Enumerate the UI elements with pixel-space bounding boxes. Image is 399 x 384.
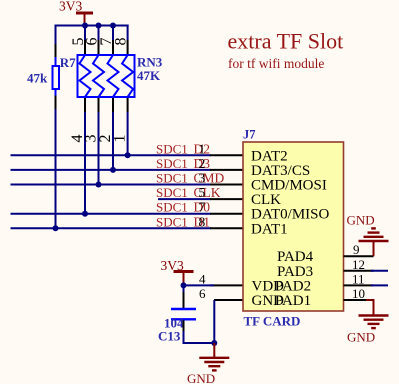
svg-text:extra TF Slot: extra TF Slot (228, 29, 344, 54)
svg-text:11: 11 (352, 271, 365, 286)
wire RN3 column pins 5-4 (84, 26, 86, 214)
ground GND (bottom middle) (187, 343, 229, 384)
resistor network RN3 (78, 55, 163, 98)
svg-text:12: 12 (352, 257, 365, 272)
svg-text:DAT1: DAT1 (251, 221, 288, 237)
junction 3V3/C13/pin4 (181, 282, 187, 288)
svg-text:SDC1: SDC1 (156, 214, 188, 229)
svg-text:PAD4: PAD4 (277, 249, 314, 265)
junction rail/pin7 (110, 23, 116, 29)
svg-text:9: 9 (353, 242, 360, 257)
svg-text:R7: R7 (60, 55, 76, 70)
power port 3V3 (top) (59, 0, 93, 26)
svg-text:GND: GND (187, 371, 215, 384)
junction RN3 pin1 / SDC1_D2 (125, 152, 131, 158)
svg-text:47k: 47k (27, 71, 48, 86)
wire C13 bottom lead to ground run (184, 320, 215, 343)
power port 3V3 (bottom, at C13) (161, 258, 194, 285)
junction R7/D1 (53, 225, 59, 231)
svg-text:DAT0/MISO: DAT0/MISO (251, 207, 330, 223)
svg-text:GND: GND (347, 213, 375, 228)
svg-text:PAD1: PAD1 (275, 293, 311, 309)
junction RN3 pin4 / SDC1_D0 (82, 211, 88, 217)
wire RN3 column pins 7-2 (112, 26, 114, 170)
svg-text:PAD2: PAD2 (275, 278, 311, 294)
wire SDC1_CMD (11, 184, 212, 186)
svg-text:DAT2: DAT2 (251, 148, 288, 164)
wire SDC1_D1 (11, 227, 212, 229)
title text (228, 29, 344, 72)
svg-text:5: 5 (199, 185, 206, 200)
svg-text:6: 6 (199, 286, 206, 301)
svg-text:GND: GND (347, 329, 375, 344)
svg-text:SDC1: SDC1 (156, 171, 188, 186)
wire SDC1_D3 (11, 169, 212, 171)
svg-text:2: 2 (199, 156, 206, 171)
net label SDC1_D1 (156, 214, 210, 229)
svg-text:DAT3/CS: DAT3/CS (251, 163, 310, 179)
junction RN3 pin2 / SDC1_D3 (110, 167, 116, 173)
svg-text:CMD/MOSI: CMD/MOSI (251, 178, 327, 194)
svg-text:SDC1: SDC1 (156, 200, 188, 215)
ground GND (top right, flipped) (347, 213, 389, 257)
svg-text:4: 4 (199, 271, 206, 286)
ground GND (bottom right) (347, 300, 389, 344)
svg-text:PAD3: PAD3 (277, 264, 313, 280)
wire stub pin11 (371, 284, 388, 286)
svg-text:3V3: 3V3 (59, 0, 82, 14)
svg-text:3: 3 (199, 171, 206, 186)
connector J7 body (243, 127, 344, 328)
svg-text:C13: C13 (158, 329, 181, 344)
svg-text:for tf wifi module: for tf wifi module (228, 56, 324, 71)
wire R7 column (55, 25, 57, 229)
junction rail-3V3/pin5 (82, 23, 88, 29)
svg-text:8: 8 (199, 214, 206, 229)
svg-text:SDC1: SDC1 (156, 156, 188, 171)
junction rail/pin6 (96, 23, 102, 29)
svg-text:1: 1 (199, 141, 206, 156)
junction RN3 pin3 / SDC1_CMD (96, 182, 102, 188)
connector J7 pins left (black pin lines) (210, 155, 243, 300)
svg-text:SDC1: SDC1 (156, 141, 188, 156)
resistor R7 (27, 55, 76, 89)
wire SDC1_D0 (11, 213, 212, 215)
wire 3V3 to pin4 (184, 284, 215, 286)
net label SDC1_D0 (156, 200, 210, 215)
svg-text:1: 1 (112, 135, 129, 143)
capacitor C13 (158, 309, 196, 344)
wire pin6 drop (213, 300, 215, 343)
wire RN3 column pins 8-1 (127, 25, 129, 156)
wire 3V3 rail (55, 25, 129, 27)
svg-text:47K: 47K (137, 68, 161, 83)
net label SDC1_D3 (156, 156, 210, 171)
wire SDC1_CLK (158, 198, 211, 200)
svg-text:10: 10 (352, 286, 365, 301)
wire SDC1_D2 (11, 154, 212, 156)
net label SDC1_CLK (156, 185, 221, 200)
net label SDC1_D2 (156, 141, 210, 156)
svg-text:SDC1: SDC1 (156, 185, 188, 200)
connector J7 pins right (black pin lines) (344, 256, 374, 300)
svg-text:8: 8 (113, 38, 130, 46)
net label SDC1_CMD (156, 171, 225, 186)
svg-text:J7: J7 (243, 127, 256, 141)
junction C13/pin6/ground (211, 340, 217, 346)
svg-text:7: 7 (199, 200, 206, 215)
wire stub pin12 (371, 270, 388, 272)
wire RN3 column pins 6-3 (98, 26, 100, 185)
svg-text:CLK: CLK (251, 192, 281, 208)
wire C13 top lead (183, 285, 185, 308)
svg-text:TF CARD: TF CARD (244, 313, 301, 328)
